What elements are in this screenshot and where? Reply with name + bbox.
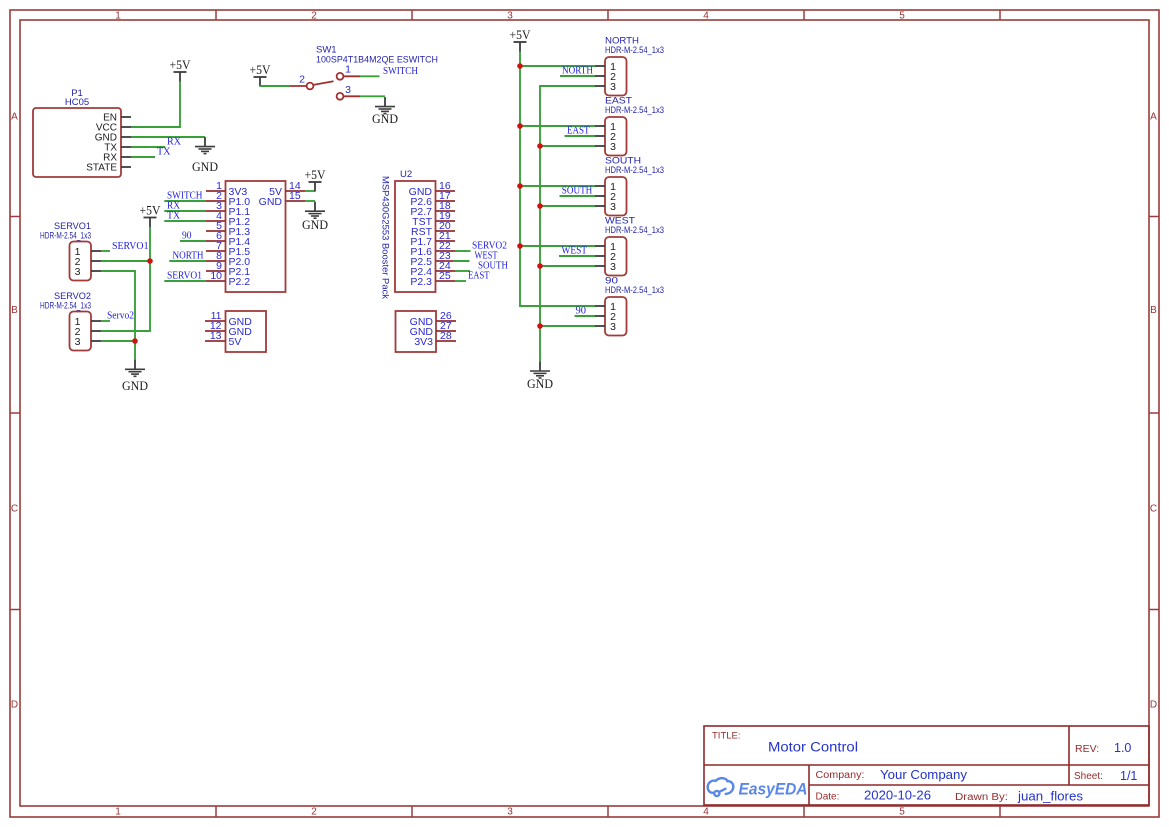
svg-text:EasyEDA: EasyEDA [739,780,808,799]
wire SERVO2 pin3 to ground [101,341,135,360]
connector SERVO1 HDR-M-2.54_1x3 [40,221,101,281]
svg-text:GND: GND [259,196,283,208]
ground (SW1) [372,97,398,126]
svg-text:1.0: 1.0 [1114,741,1131,755]
svg-text:3: 3 [610,201,616,213]
svg-text:HDR-M-2.54_1x3: HDR-M-2.54_1x3 [605,225,664,236]
wire SERVO1 pin1 [101,250,110,252]
svg-text:Date:: Date: [816,792,840,803]
wire SW1 pin3 to ground [360,95,385,97]
svg-text:2: 2 [299,74,305,86]
junction EAST pin1 [517,123,523,129]
wire SERVO1 to U2 pin10 [164,280,206,282]
svg-text:REV:: REV: [1075,743,1099,755]
wire U2 pin22 [455,250,471,252]
wire SOUTH pin2 [560,195,596,197]
svg-text:3: 3 [75,336,81,348]
svg-text:Servo2: Servo2 [107,311,134,322]
wire +5V bus down to 90 pin1 [520,52,595,307]
svg-text:C: C [11,504,18,515]
wire WEST pin2 [559,255,595,257]
wire GND bus [540,86,595,362]
connector EAST HDR-M-2.54_1x3 [595,96,664,156]
svg-text:1: 1 [345,64,351,76]
svg-text:3: 3 [610,81,616,93]
svg-text:SERVO1: SERVO1 [167,271,202,282]
svg-text:1/1: 1/1 [1120,769,1137,783]
junction WEST pin3 [537,263,543,269]
EasyEDA logo [708,778,808,798]
svg-text:+5V: +5V [510,28,532,42]
svg-text:U2: U2 [400,169,412,180]
junction SERVO2 pin3 [132,338,138,344]
svg-text:NORTH: NORTH [173,251,204,262]
wire EAST pin2 [565,135,596,137]
wire U2 pin15 to ground [305,200,315,202]
svg-text:juan_flores: juan_flores [1017,790,1083,804]
svg-text:2020-10-26: 2020-10-26 [864,789,931,803]
svg-text:GND: GND [122,378,148,393]
svg-text:3: 3 [610,321,616,333]
wire SW1 pin1 [360,75,380,77]
svg-text:+5V: +5V [170,58,192,72]
svg-text:TX: TX [157,147,171,158]
wire NORTH to U2 pin8 [169,260,206,262]
wire +5V to SW1 pin2 [260,85,290,87]
junction SOUTH pin3 [537,203,543,209]
wire SWITCH to U2 pin2 [164,200,206,202]
svg-text:3: 3 [507,11,513,22]
wire +5V to EAST pin1 [520,125,595,127]
svg-text:HDR-M-2.54_1x3: HDR-M-2.54_1x3 [605,45,664,56]
IC U2 section D (pins 26-28) [396,310,457,352]
svg-text:Your Company: Your Company [880,768,968,782]
svg-text:1: 1 [115,807,121,818]
svg-text:100SP4T1B4M2QE ESWITCH: 100SP4T1B4M2QE ESWITCH [316,55,438,66]
wire +5V to SOUTH pin1 [520,185,595,187]
svg-text:5: 5 [899,807,905,818]
ground (U2 pin15) [302,202,328,232]
connector SERVO2 HDR-M-2.54_1x3 [40,291,101,351]
wire P1 VCC to +5V [131,82,180,128]
svg-text:P2.2: P2.2 [229,276,251,288]
power flag +5V (U2 pin14) [305,168,327,191]
svg-text:Sheet:: Sheet: [1074,771,1103,782]
svg-text:HDR-M-2.54_1x3: HDR-M-2.54_1x3 [605,285,664,296]
svg-text:5V: 5V [229,336,242,348]
wire SERVO1 pin2 to +5V bus [101,260,150,262]
junction 90 pin3 [537,323,543,329]
svg-text:2: 2 [311,11,317,22]
wire WEST pin3 to GND bus [540,265,595,267]
IC U2 MSP430G2553 Booster Pack section A (pins 1-15) [206,180,305,292]
svg-text:3V3: 3V3 [414,336,433,348]
wire +5V to WEST pin1 [520,245,595,247]
svg-text:GND: GND [302,217,328,232]
svg-text:B: B [1150,305,1157,316]
wire SERVO1 pin3 down [101,271,135,341]
svg-text:28: 28 [440,330,452,342]
connector NORTH HDR-M-2.54_1x3 [595,36,664,96]
svg-text:GND: GND [372,111,398,126]
wire TX to U2 pin4 [164,220,206,222]
svg-text:SOUTH: SOUTH [562,186,593,197]
svg-text:C: C [1150,504,1157,515]
connector SOUTH HDR-M-2.54_1x3 [595,156,664,216]
svg-text:HDR-M-2.54_1x3: HDR-M-2.54_1x3 [40,301,91,312]
svg-text:MSP430G2553 Booster Pack: MSP430G2553 Booster Pack [381,176,391,299]
IC U2 MSP430G2553 Booster Pack section B (pins 16-25) [381,169,456,299]
wire 90 pin3 to GND bus [540,325,595,327]
svg-text:3: 3 [610,141,616,153]
svg-text:Company:: Company: [816,770,865,781]
svg-text:+5V: +5V [250,63,272,77]
junction EAST pin3 [537,143,543,149]
module P1 HC05 [33,88,131,177]
wire +5V to NORTH pin1 [520,65,595,67]
ground (header bus) [527,362,553,392]
svg-text:+5V: +5V [140,204,162,218]
junction SOUTH pin1 [517,183,523,189]
svg-text:A: A [1150,112,1157,123]
junction WEST pin1 [517,243,523,249]
svg-text:D: D [1150,700,1157,711]
svg-text:SERVO1: SERVO1 [112,241,149,252]
svg-text:90: 90 [182,231,192,242]
svg-text:HC05: HC05 [65,97,89,108]
junction SERVO1 pin2 [147,258,153,264]
svg-text:TITLE:: TITLE: [712,731,741,742]
svg-text:2: 2 [311,807,317,818]
wire SOUTH pin3 to GND bus [540,205,595,207]
svg-text:13: 13 [210,330,222,342]
title block [704,726,1149,805]
power flag +5V (SW1) [250,63,272,86]
svg-text:25: 25 [439,270,451,282]
power flag +5V (servo bus) [140,204,162,227]
svg-text:SWITCH: SWITCH [383,66,418,77]
wire 90 to U2 pin6 [180,240,206,242]
svg-text:Motor Control: Motor Control [768,740,858,755]
ground (P1) [192,137,218,174]
svg-text:90: 90 [576,306,587,317]
svg-text:P2.3: P2.3 [410,276,432,288]
svg-text:4: 4 [703,11,709,22]
wire U2 pin25 [455,280,466,282]
svg-text:3: 3 [345,84,351,96]
switch SW1 100SP4T1B4M2QE [290,45,438,100]
power flag +5V (header bus) [510,28,532,51]
svg-text:A: A [11,112,18,123]
wire P1 GND to ground [131,136,205,138]
wire U2 pin23 [453,260,470,262]
connector 90 HDR-M-2.54_1x3 [595,276,664,336]
ground (servo bus) [122,360,148,393]
svg-text:GND: GND [192,159,218,174]
junction NORTH pin1 [517,63,523,69]
svg-text:Drawn By:: Drawn By: [955,792,1008,803]
wire NORTH pin2 [560,75,595,77]
svg-text:3: 3 [610,261,616,273]
svg-text:HDR-M-2.54_1x3: HDR-M-2.54_1x3 [605,105,664,116]
connector WEST HDR-M-2.54_1x3 [595,216,664,276]
svg-text:+5V: +5V [305,168,327,182]
svg-text:WEST: WEST [562,246,588,257]
wire +5V bus to SERVO2 pin2 [101,227,150,331]
wire U2 pin24 [455,270,470,272]
wire EAST pin3 to GND bus [540,145,595,147]
svg-text:STATE: STATE [86,163,117,174]
svg-text:4: 4 [703,807,709,818]
wire P1 RX [131,156,155,158]
svg-text:10: 10 [210,270,222,282]
svg-text:TX: TX [167,211,181,222]
svg-text:HDR-M-2.54_1x3: HDR-M-2.54_1x3 [605,165,664,176]
svg-text:1: 1 [115,11,121,22]
svg-text:15: 15 [289,190,301,202]
svg-text:B: B [11,305,18,316]
wire P1 TX [131,146,165,148]
svg-text:3: 3 [75,266,81,278]
svg-text:3: 3 [507,807,513,818]
svg-text:EAST: EAST [468,270,490,281]
IC U2 section C (pins 11-13) [205,310,266,352]
svg-text:NORTH: NORTH [562,66,593,77]
wire SERVO2 pin1 [101,320,110,322]
svg-text:HDR-M-2.54_1x3: HDR-M-2.54_1x3 [40,231,91,242]
svg-text:D: D [11,700,18,711]
power flag +5V (P1) [170,58,192,81]
svg-text:GND: GND [527,376,553,391]
svg-text:EAST: EAST [567,126,590,137]
wire RX to U2 pin3 [164,210,206,212]
wire U2 pin14 to +5V [305,190,315,192]
wire 90 pin2 [575,315,596,317]
svg-text:5: 5 [899,11,905,22]
